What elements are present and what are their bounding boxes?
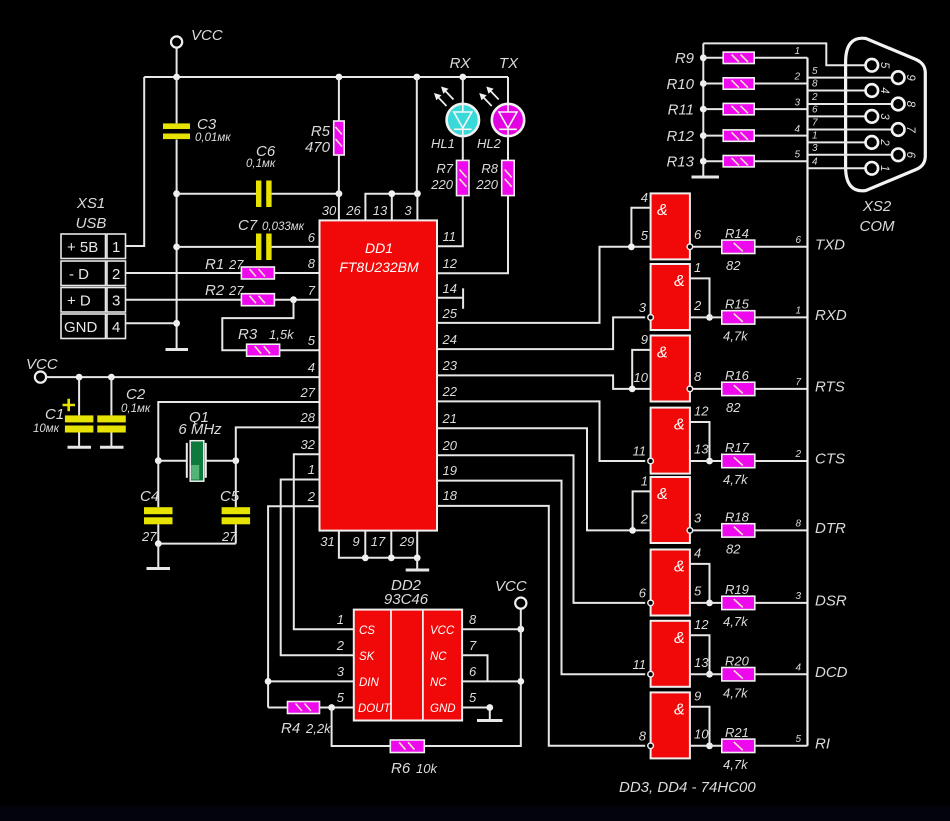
capacitor C5 <box>222 507 251 524</box>
svg-text:8: 8 <box>469 612 477 627</box>
svg-text:XS1: XS1 <box>76 195 105 212</box>
wire gate5 to R18 <box>693 529 722 531</box>
node gnd-C7row <box>173 244 180 251</box>
svg-text:13: 13 <box>694 655 709 670</box>
wire C4 top lead <box>157 461 159 508</box>
svg-text:19: 19 <box>443 463 457 478</box>
gate6 output bubble <box>648 600 654 606</box>
R11 slashes <box>732 106 749 114</box>
node R6-vcc <box>517 678 524 685</box>
IC DD2 93C46 <box>354 610 462 721</box>
svg-text:8: 8 <box>694 369 702 384</box>
HL1 arrows <box>434 87 454 107</box>
crystal Q1 <box>187 441 206 482</box>
VCC terminal left <box>35 372 46 383</box>
VCC terminal DD2 <box>515 598 526 609</box>
wire to db9 pin3 <box>808 115 866 117</box>
svg-text:5: 5 <box>878 62 890 69</box>
svg-text:R3: R3 <box>238 326 258 343</box>
svg-text:6: 6 <box>694 227 702 242</box>
svg-text:HL2: HL2 <box>477 136 502 151</box>
svg-text:4: 4 <box>794 124 800 135</box>
svg-text:8: 8 <box>795 519 801 530</box>
node gate3 tie <box>629 386 636 393</box>
svg-text:DTR: DTR <box>815 520 846 537</box>
wire VCC stub <box>176 48 178 77</box>
svg-text:FT8U232BM: FT8U232BM <box>339 259 419 275</box>
svg-text:6: 6 <box>639 586 647 601</box>
svg-text:2: 2 <box>693 298 702 313</box>
wire gate7 to R20 <box>690 673 722 675</box>
svg-text:8: 8 <box>812 79 818 90</box>
gate8 input tie <box>690 707 710 746</box>
wire R5 top lead <box>338 77 340 121</box>
svg-text:3: 3 <box>794 97 800 108</box>
wire R8 to pin12 <box>437 196 508 274</box>
capacitor C4 <box>144 507 173 524</box>
db9 hole 1 <box>866 162 879 175</box>
resistor R20 <box>722 668 755 681</box>
wire to db9 pin8 <box>808 103 892 105</box>
svg-text:&: & <box>674 701 685 718</box>
wire gate4 to R17 <box>690 460 722 462</box>
wire C7 right lead to pin6 <box>272 246 320 248</box>
svg-text:R15: R15 <box>725 297 750 312</box>
svg-text:14: 14 <box>443 281 457 296</box>
svg-text:3: 3 <box>812 143 818 154</box>
svg-text:R13: R13 <box>666 154 694 171</box>
db9 hole 4 <box>866 84 879 97</box>
node R2-R3 <box>290 296 297 303</box>
wire DD1 bottom pins tie <box>339 531 417 558</box>
svg-text:4: 4 <box>308 360 315 375</box>
R9 slashes <box>732 55 749 63</box>
wire Q1 right lead <box>206 460 236 462</box>
R20 slash <box>734 670 743 678</box>
svg-text:C3: C3 <box>197 116 217 133</box>
gate DD3.4 CTS <box>651 408 690 474</box>
svg-text:R20: R20 <box>725 653 750 668</box>
wire DD2 gnd <box>462 708 490 720</box>
svg-text:3: 3 <box>337 664 345 679</box>
wire pin19 to gate7 out <box>437 481 645 675</box>
resistor R2 <box>241 294 274 306</box>
svg-text:1: 1 <box>112 239 120 256</box>
resistor R6 <box>390 740 424 753</box>
C1 plus mark <box>63 399 76 411</box>
svg-text:NC: NC <box>430 677 447 689</box>
node pin9 <box>362 554 369 561</box>
wire HL2 to R8 <box>507 136 509 160</box>
svg-text:10мк: 10мк <box>33 423 60 435</box>
wire to db9 pin2 <box>808 141 866 143</box>
svg-text:R2: R2 <box>205 282 225 299</box>
svg-text:5: 5 <box>812 66 818 77</box>
svg-text:0,01мк: 0,01мк <box>195 132 231 144</box>
node C4 gnd <box>155 540 162 547</box>
svg-text:2: 2 <box>878 138 890 146</box>
svg-text:11: 11 <box>633 444 647 459</box>
wire vcc pins tie <box>365 194 417 221</box>
resistor R7 <box>457 160 470 195</box>
node rail-HL1 <box>459 74 466 81</box>
svg-text:4,7k: 4,7k <box>723 685 749 700</box>
svg-text:3: 3 <box>694 511 702 526</box>
svg-text:R5: R5 <box>311 123 331 140</box>
node bus R13 <box>700 158 707 165</box>
wire gate6 to R19 <box>690 602 722 604</box>
svg-text:1: 1 <box>641 474 648 489</box>
wire to db9 pin7 <box>808 129 892 131</box>
node bus R9 <box>700 54 707 61</box>
resistor R5 <box>334 121 345 155</box>
node bus R11 <box>700 106 707 113</box>
svg-text:12: 12 <box>694 617 709 632</box>
db9 hole 2 <box>866 136 879 149</box>
wire C4 bottom lead <box>157 524 159 543</box>
svg-text:20: 20 <box>442 438 458 453</box>
svg-text:&: & <box>674 630 685 647</box>
svg-text:C2: C2 <box>126 386 146 403</box>
svg-text:28: 28 <box>300 410 316 425</box>
svg-text:10: 10 <box>634 370 649 385</box>
svg-text:7: 7 <box>469 638 477 653</box>
wire R3 loop <box>222 300 293 351</box>
svg-text:31: 31 <box>320 534 334 549</box>
svg-text:5: 5 <box>469 690 477 705</box>
svg-text:VCC: VCC <box>495 578 527 595</box>
db9 hole 9 <box>892 71 905 84</box>
wire usb GND row <box>126 322 177 324</box>
svg-text:4: 4 <box>795 662 801 673</box>
LED HL2 <box>492 77 524 136</box>
svg-text:1: 1 <box>694 260 701 275</box>
svg-text:R12: R12 <box>666 128 694 145</box>
R4 slashes <box>296 704 312 712</box>
wire main VCC rail <box>144 76 508 78</box>
wire C5 top lead <box>235 461 237 508</box>
svg-text:4,7k: 4,7k <box>723 329 749 344</box>
wire R17 to XS2 <box>755 460 808 462</box>
wire pin2 to DD2 DIN <box>268 506 319 707</box>
R18 slash <box>734 527 743 535</box>
svg-text:RX: RX <box>450 55 472 72</box>
svg-text:C7: C7 <box>238 217 258 234</box>
svg-text:23: 23 <box>442 358 458 373</box>
wire gate1 to R14 <box>693 246 722 248</box>
node pin3 tie <box>414 190 421 197</box>
svg-text:30: 30 <box>322 203 337 218</box>
wire crystal gnd tie <box>158 543 236 545</box>
resistor R15 <box>722 311 755 324</box>
svg-text:1,5k: 1,5k <box>269 327 295 342</box>
svg-text:6: 6 <box>812 105 818 116</box>
svg-text:1: 1 <box>794 46 800 57</box>
wire pin22 to gate4 out <box>437 401 645 461</box>
wire vcc drop to pins <box>416 77 418 194</box>
resistor R17 <box>722 454 755 467</box>
svg-text:2,2k: 2,2k <box>305 721 332 736</box>
svg-text:VCC: VCC <box>191 27 223 44</box>
LED HL1 <box>447 77 479 136</box>
svg-text:0,033мк: 0,033мк <box>262 221 305 233</box>
svg-text:6: 6 <box>795 235 801 246</box>
svg-text:DD1: DD1 <box>365 240 393 256</box>
R6 slashes <box>399 742 415 750</box>
svg-text:&: & <box>674 273 685 290</box>
gate4 output bubble <box>648 458 654 464</box>
wire C3 top lead <box>176 77 178 123</box>
wire R15 to XS2 <box>755 316 808 318</box>
svg-text:+ D: + D <box>67 293 91 310</box>
svg-text:HL1: HL1 <box>431 136 455 151</box>
wire to db9 pin4 <box>808 90 866 92</box>
svg-text:USB: USB <box>76 215 107 232</box>
wire gate2 to R15 <box>690 316 722 318</box>
wire pin29 stub <box>416 531 418 558</box>
R12 slashes <box>732 132 749 140</box>
R10 slashes <box>732 80 749 88</box>
gate2 input tie <box>690 278 710 317</box>
svg-text:TX: TX <box>499 55 519 72</box>
wire HL1 to R7 <box>462 136 464 160</box>
wire vcc3 stub <box>520 609 522 682</box>
wire pin18 to gate8 out <box>437 506 645 746</box>
node gate4 tie <box>706 458 713 465</box>
wire VCC row to pin4 <box>46 376 319 378</box>
node Q1 left <box>155 457 162 464</box>
node DOUT <box>328 704 335 711</box>
svg-text:5: 5 <box>795 734 801 745</box>
wire to db9 pin1 <box>808 167 866 169</box>
svg-text:1: 1 <box>337 612 344 627</box>
svg-text:DD3, DD4 - 74HC00: DD3, DD4 - 74HC00 <box>619 779 756 796</box>
svg-text:4: 4 <box>694 546 701 561</box>
svg-text:R14: R14 <box>725 226 749 241</box>
svg-text:5: 5 <box>641 228 649 243</box>
svg-text:27: 27 <box>228 283 244 298</box>
svg-text:R11: R11 <box>668 102 694 119</box>
wire R12 to spine <box>754 135 807 137</box>
svg-text:27: 27 <box>221 529 237 544</box>
gate DD4.4 RI <box>651 692 690 758</box>
VCC terminal top <box>171 36 182 47</box>
gate8 output bubble <box>648 743 654 749</box>
wire C5 bottom lead <box>235 524 237 543</box>
node DD2 gnd <box>486 704 493 711</box>
wire R18 to XS2 <box>755 529 808 531</box>
gate5 input tie <box>633 491 651 530</box>
svg-text:C5: C5 <box>220 488 240 505</box>
gate5 output bubble <box>687 528 693 534</box>
resistor R9 <box>723 52 754 63</box>
node gate5 tie <box>629 527 636 534</box>
svg-text:R19: R19 <box>725 582 749 597</box>
wire C2 top lead <box>110 377 112 415</box>
wire DOUT to R6 <box>332 708 391 747</box>
svg-text:C4: C4 <box>140 488 159 505</box>
resistor R4 <box>288 702 320 714</box>
R19 slash <box>734 599 743 607</box>
wire pin32 to DD2 CS <box>294 454 354 629</box>
node pin13 tie <box>388 190 395 197</box>
wire pin21 to gate5 <box>437 428 651 530</box>
resistor R10 <box>723 78 754 89</box>
node gate7 tie <box>706 671 713 678</box>
wire pin25 to gate1 <box>437 247 651 323</box>
svg-text:7: 7 <box>795 377 801 388</box>
svg-text:1: 1 <box>795 306 801 317</box>
wire usb -D to R1 <box>126 272 242 274</box>
svg-text:R1: R1 <box>205 256 224 273</box>
wire R10 leads <box>703 83 723 85</box>
wire DD2 pin6 <box>462 680 521 682</box>
wire R5 bottom lead <box>338 155 340 194</box>
svg-text:1: 1 <box>308 462 315 477</box>
svg-text:9: 9 <box>904 74 916 81</box>
wire R14 to XS2 <box>755 246 808 248</box>
bottom blue band <box>0 805 950 821</box>
svg-text:0,1мк: 0,1мк <box>246 158 276 170</box>
wire R9 leads <box>703 57 723 59</box>
svg-text:R7: R7 <box>436 161 453 176</box>
gate1 output bubble <box>687 244 693 250</box>
wire R9 to spine <box>754 57 807 59</box>
svg-text:CS: CS <box>359 625 375 637</box>
svg-text:R18: R18 <box>725 510 750 525</box>
connector spine XS2 <box>806 58 808 746</box>
resistor R11 <box>723 103 754 114</box>
R5 slash <box>336 127 343 147</box>
wire R10 to spine <box>754 83 807 85</box>
gate3 input tie <box>632 350 650 389</box>
svg-text:18: 18 <box>443 488 458 503</box>
wire R11 to spine <box>754 108 807 110</box>
svg-text:21: 21 <box>442 411 457 426</box>
svg-text:9: 9 <box>694 688 701 703</box>
wire gnd vertical left <box>176 140 178 349</box>
R8 slash <box>505 170 512 187</box>
node gnd-usb <box>173 320 180 327</box>
wire pin1 to DD2 SK <box>281 480 354 656</box>
svg-text:R6: R6 <box>391 760 411 777</box>
svg-text:5: 5 <box>794 149 800 160</box>
svg-text:SK: SK <box>359 651 376 663</box>
capacitor C1 <box>65 415 94 432</box>
wire gnd stub Q1 <box>157 544 159 568</box>
node pin17 <box>388 554 395 561</box>
node gate1 tie <box>628 243 635 250</box>
resistor R19 <box>722 596 755 609</box>
svg-text:9: 9 <box>352 534 359 549</box>
svg-text:COM: COM <box>860 218 896 235</box>
db9 hole 8 <box>892 98 905 111</box>
svg-text:82: 82 <box>726 400 741 415</box>
svg-text:R4: R4 <box>281 720 300 737</box>
resistor R1 <box>241 267 274 279</box>
pin14 end bar <box>462 288 464 309</box>
wire pin30 stub <box>338 194 340 221</box>
svg-text:2: 2 <box>811 92 818 103</box>
R15 slash <box>734 314 743 322</box>
svg-text:11: 11 <box>443 229 457 244</box>
svg-text:&: & <box>674 559 685 576</box>
gate7 output bubble <box>648 671 654 677</box>
resistor R14 <box>722 240 755 253</box>
gate1 input tie <box>631 208 650 247</box>
svg-text:3: 3 <box>404 203 412 218</box>
node rail-pins <box>413 74 420 81</box>
svg-text:470: 470 <box>305 139 331 156</box>
R13 slashes <box>732 158 749 166</box>
ground under DD1 <box>406 569 430 572</box>
R3 slashes <box>255 346 271 354</box>
resistor R12 <box>723 130 754 141</box>
svg-text:VCC: VCC <box>430 625 455 637</box>
wire R2 to pin7 <box>274 299 319 301</box>
svg-text:4: 4 <box>812 157 818 168</box>
wire R3 to pin5 <box>280 349 320 351</box>
wire R4 left lead <box>268 707 287 709</box>
resistor R18 <box>722 524 755 537</box>
wire pin28 to crystal <box>236 427 320 460</box>
wire R21 to XS2 <box>755 745 808 747</box>
svg-text:2: 2 <box>794 449 801 460</box>
svg-text:7: 7 <box>812 118 818 129</box>
wire Q1 left lead <box>158 460 187 462</box>
svg-text:82: 82 <box>726 542 741 557</box>
wire to db9 pin9 <box>808 77 892 79</box>
wire gate3 to R16 <box>693 388 722 390</box>
svg-text:25: 25 <box>442 306 458 321</box>
svg-text:1: 1 <box>812 131 818 142</box>
svg-text:6 MHz: 6 MHz <box>178 421 222 438</box>
R2 slashes <box>250 296 266 304</box>
resistor R3 <box>247 344 280 356</box>
svg-text:3: 3 <box>878 113 890 120</box>
gate DD3.1 TXD <box>651 193 690 259</box>
svg-text:4: 4 <box>641 190 648 205</box>
ground under XS1 <box>166 348 189 351</box>
svg-text:3: 3 <box>795 591 801 602</box>
node bus R12 <box>700 132 707 139</box>
svg-text:7: 7 <box>904 126 916 133</box>
svg-text:2: 2 <box>112 266 120 283</box>
R7 slash <box>460 170 467 187</box>
svg-text:93C46: 93C46 <box>384 591 429 608</box>
node DIN <box>265 678 272 685</box>
wire R13 to spine <box>754 160 807 162</box>
svg-text:82: 82 <box>726 258 741 273</box>
ground under C4 <box>147 567 171 570</box>
svg-text:3: 3 <box>112 293 120 310</box>
R16 slash <box>734 385 743 393</box>
node Q1 right <box>232 457 239 464</box>
svg-text:6: 6 <box>904 152 916 159</box>
node bus R10 <box>700 80 707 87</box>
svg-text:GND: GND <box>430 703 456 715</box>
resistor R21 <box>722 739 755 752</box>
R9-R13 left bus <box>702 43 704 176</box>
svg-text:8: 8 <box>639 728 647 743</box>
svg-text:RXD: RXD <box>815 307 847 324</box>
gate2 output bubble <box>648 315 654 321</box>
svg-text:7: 7 <box>308 283 316 298</box>
wire DIN row <box>268 680 354 682</box>
gate DD3.3 RTS <box>651 336 690 402</box>
ground under C2 <box>100 446 124 449</box>
svg-text:3: 3 <box>639 300 647 315</box>
